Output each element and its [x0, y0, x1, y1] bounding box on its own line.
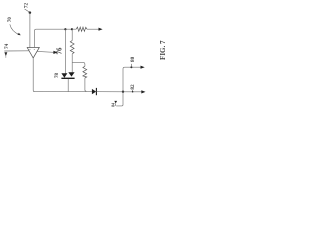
output 1 arrowhead — [141, 66, 145, 69]
wire node A down to diode D1 — [64, 29, 66, 74]
node 72 junction dot — [29, 11, 32, 14]
stub to label 82 — [132, 90, 134, 92]
wire R3 down to bottom bus — [85, 78, 86, 91]
supply terminal arrow (down) — [4, 52, 7, 56]
diode D2 (right, cathode down) — [68, 72, 74, 76]
op-amp U1 (triangle pointing down) — [27, 48, 39, 59]
output 2 arrowhead — [141, 90, 145, 93]
bus junction dot — [122, 91, 124, 93]
supply wire right from op-amp — [37, 50, 54, 53]
bottom bus wire to output arrow 2 — [96, 91, 141, 93]
small dot at label 82 stub — [132, 91, 134, 93]
supply arrowhead right — [53, 51, 57, 54]
svg-text:72: 72 — [24, 3, 30, 9]
stub to label 80 — [130, 64, 132, 67]
resistor R1 (horizontal) — [76, 27, 87, 31]
wire R1 to output arrow — [87, 28, 99, 30]
leader line to node 72 — [25, 9, 30, 12]
op-amp output wire down and right (bottom bus) — [33, 58, 92, 92]
junction dot node A — [64, 28, 66, 30]
resistor R3 (vertical) — [83, 66, 87, 78]
svg-text:76: 76 — [56, 47, 64, 55]
svg-text:FIG. 7: FIG. 7 — [159, 40, 167, 60]
wire op-amp input 2 up and right to resistor row — [34, 29, 76, 47]
resistor R2 (vertical) — [70, 41, 74, 54]
common cathode bar — [61, 77, 74, 79]
supply wire left to op-amp — [4, 50, 29, 52]
diode D3 cathode bar — [95, 88, 97, 95]
arrowhead of leader 70 — [17, 33, 20, 36]
wire bus down to return terminal — [116, 92, 123, 106]
supply arrow stub — [5, 56, 7, 57]
wire node B right to resistor R3 — [72, 62, 85, 66]
svg-text:82: 82 — [130, 84, 136, 90]
junction dot node B — [71, 28, 73, 30]
wire R2 to diode D2 — [71, 54, 73, 73]
wire up from bus to output 1 row — [123, 67, 141, 92]
diode D3 (series output diode, pointing right) — [92, 89, 96, 94]
svg-text:74: 74 — [4, 43, 10, 49]
wire diode cathodes down to bottom bus — [67, 79, 69, 92]
output arrowhead (top right) — [99, 28, 103, 31]
op-amp input polarity marks — [29, 48, 30, 50]
svg-text:70: 70 — [8, 17, 13, 23]
curved leader arrow from label 70 — [10, 24, 19, 34]
wire node B down to resistor R2 — [71, 29, 73, 40]
wire input terminal to op-amp input 1 — [29, 13, 31, 48]
return terminal stub — [115, 103, 117, 106]
junction dot output 1 — [130, 66, 132, 68]
svg-text:84: 84 — [110, 103, 115, 107]
svg-text:80: 80 — [130, 56, 136, 62]
diode D1 (left, cathode down) — [61, 73, 67, 78]
svg-text:78: 78 — [55, 73, 60, 79]
return terminal arrowhead (down) — [114, 101, 117, 104]
